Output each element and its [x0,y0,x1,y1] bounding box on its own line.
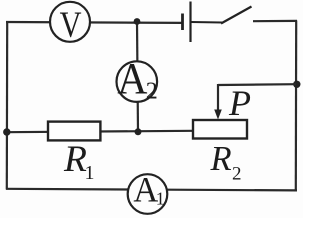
node: junction on left wire [3,128,10,135]
wire: wiper horizontal from right wire [218,83,296,86]
wire: A2 vertical branch [137,22,138,133]
wire: battery to switch pivot [191,21,222,24]
svg-text:P: P [228,83,251,123]
battery: long positive plate [189,2,191,43]
node: junction on right wire [293,81,300,88]
label R1 [63,139,95,184]
svg-text:1: 1 [156,188,165,208]
voltmeter V [50,2,90,46]
svg-text:1: 1 [85,162,95,184]
svg-text:2: 2 [146,79,158,105]
svg-text:R: R [63,139,87,180]
switch: open blade [221,7,252,24]
wire: middle row through R1 and R2 [6,131,193,132]
node: junction middle row [135,128,142,135]
node: junction on top wire [134,18,141,25]
svg-text:A: A [133,170,158,210]
wire: left vertical branch [6,22,9,190]
svg-text:A: A [117,55,147,103]
battery: short negative plate [181,14,184,31]
ammeter A2 [117,55,158,105]
wiper arrow into R2 [217,84,219,112]
resistor R1 [48,122,100,141]
wire: top horizontal from switch contact to right corner [253,20,297,23]
svg-text:2: 2 [232,163,242,184]
svg-text:R: R [210,140,232,178]
svg-text:V: V [60,5,82,45]
wire: top horizontal from left corner to battery [6,21,182,24]
wire: bottom horizontal [6,189,297,191]
ammeter A1 [128,170,168,214]
label R2 [210,140,242,185]
wire: right vertical branch [295,21,298,191]
potentiometer R2 [193,120,247,139]
